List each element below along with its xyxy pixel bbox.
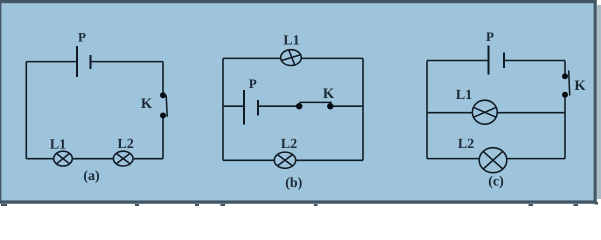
circuit (b) xyxy=(223,50,363,169)
label L2 (c) xyxy=(458,139,474,148)
lamp L1 (c) xyxy=(472,100,497,124)
switch K (a) blade xyxy=(166,95,167,117)
label P (b) xyxy=(249,79,256,88)
wire bottom (a) xyxy=(26,158,163,160)
label K (a) xyxy=(141,99,152,108)
battery P (b) long plate xyxy=(243,90,245,125)
wire left side (b) xyxy=(222,58,224,160)
switch K (a) node bottom xyxy=(160,113,166,119)
switch K (c) blade xyxy=(569,71,570,96)
label K (c) xyxy=(575,81,586,90)
label L2 (a) xyxy=(118,139,134,148)
label K (b) xyxy=(323,89,334,98)
battery P (a) long plate xyxy=(76,46,78,77)
wire top (b) xyxy=(223,57,363,59)
wire bottom (c) xyxy=(427,158,565,160)
wire top (c) xyxy=(427,60,565,62)
battery P (c) long plate xyxy=(488,46,490,75)
wire top (a) xyxy=(26,61,163,63)
switch K (b) node left xyxy=(296,103,302,109)
battery P (c) short plate xyxy=(503,53,505,69)
circuit (a) xyxy=(26,46,167,166)
lamp L2 (b) xyxy=(274,152,295,168)
switch K (b) blade xyxy=(299,101,332,103)
wire middle (c) xyxy=(427,112,565,114)
label L1 (c) xyxy=(456,90,471,99)
label L1 (b) xyxy=(284,35,299,44)
switch K (c) node bottom xyxy=(562,92,568,98)
circuit (c) xyxy=(427,46,570,173)
wire right side (a) xyxy=(162,62,164,159)
battery P (a) short plate xyxy=(90,55,92,69)
lamp L2 (a) xyxy=(113,151,133,166)
text fragment marks below frame xyxy=(1,202,598,206)
wire right side (c) xyxy=(564,61,566,159)
wire bottom (b) xyxy=(223,159,363,161)
lamp L1 (b) xyxy=(281,50,302,66)
label (b) xyxy=(286,177,302,190)
lamp L2 (c) xyxy=(479,148,507,173)
wire middle (b) xyxy=(223,105,363,107)
wire left side (c) xyxy=(426,61,428,159)
switch K (c) node top xyxy=(562,73,568,79)
wire right side (b) xyxy=(362,58,364,160)
label P (c) xyxy=(486,32,493,41)
wire left side (a) xyxy=(25,62,27,159)
label L2 (b) xyxy=(281,139,297,148)
label P (a) xyxy=(78,33,85,42)
lamp L1 (a) xyxy=(54,151,73,166)
battery P (b) short plate xyxy=(257,100,259,116)
switch K (a) node top xyxy=(160,92,166,98)
label (c) xyxy=(489,176,503,189)
label (a) xyxy=(84,170,99,183)
switch K (b) node right xyxy=(327,103,333,109)
label L1 (a) xyxy=(50,139,65,148)
